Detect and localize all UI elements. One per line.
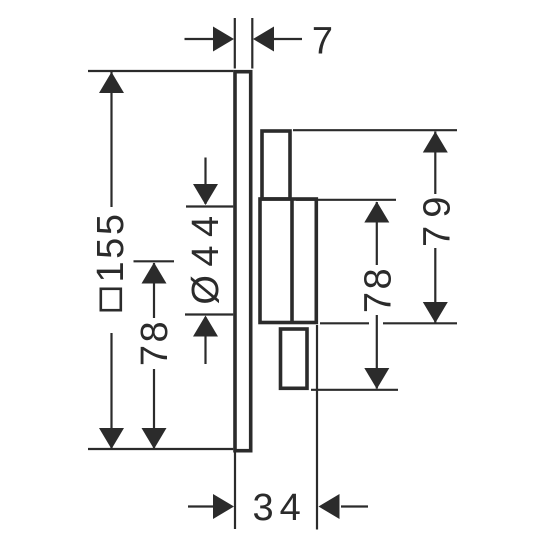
svg-text:78: 78 <box>134 319 176 366</box>
svg-text:79: 79 <box>417 189 459 247</box>
svg-text:78: 78 <box>358 266 400 313</box>
svg-text:7: 7 <box>312 21 333 63</box>
svg-text:Ø44: Ø44 <box>185 207 227 304</box>
svg-text:34: 34 <box>253 487 307 529</box>
svg-text:155: 155 <box>90 212 132 283</box>
